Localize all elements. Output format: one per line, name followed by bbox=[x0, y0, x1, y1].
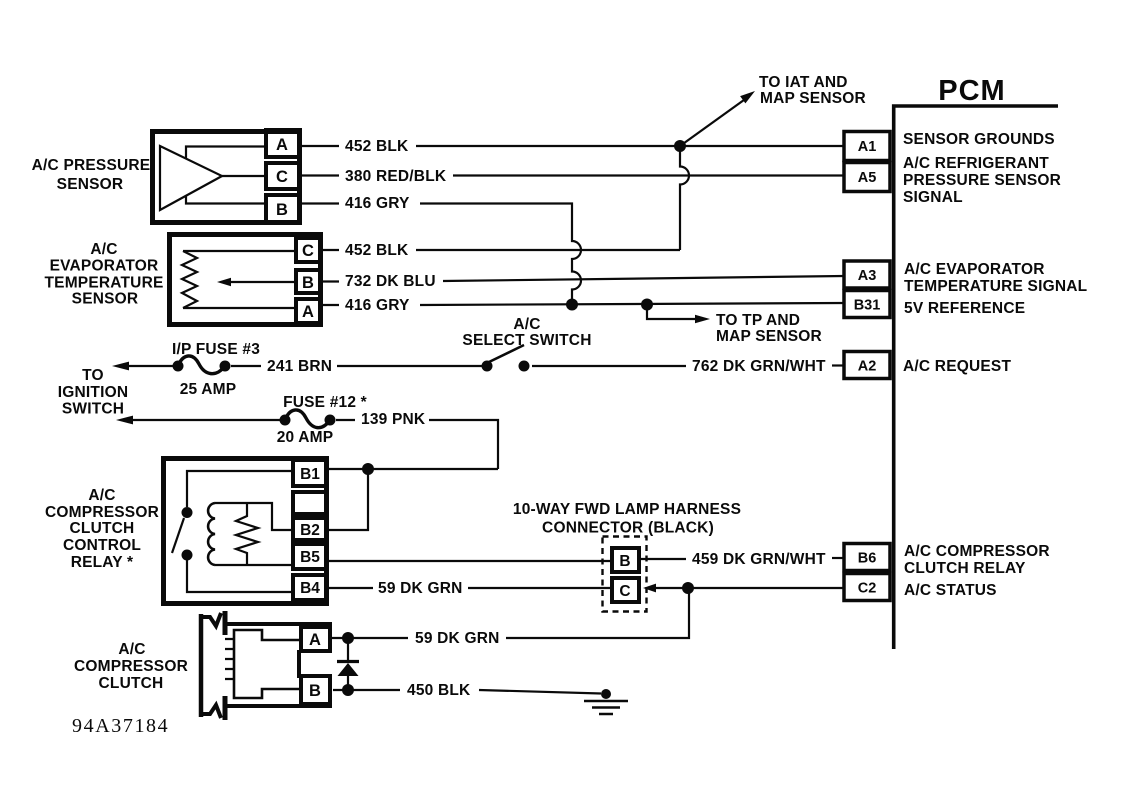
relay empty pin box bbox=[293, 492, 327, 514]
relay internal wire B1 to switch bbox=[187, 471, 293, 507]
svg-text:A2: A2 bbox=[858, 359, 877, 375]
wire 380 RED/BLK stub from pressure C bbox=[302, 174, 339, 176]
A/C pressure sensor box bbox=[153, 132, 300, 223]
svg-text:B1: B1 bbox=[300, 466, 320, 483]
compressor clutch bracket left vertical bbox=[199, 614, 204, 717]
10-way pin C bbox=[612, 578, 639, 602]
wire 459 DK GRN/WHT from 10-way B bbox=[641, 558, 686, 560]
arrowhead TO IAT AND MAP SENSOR bbox=[740, 91, 755, 103]
thermistor arrow line bbox=[230, 281, 294, 283]
op-amp triangle inside pressure sensor bbox=[160, 146, 222, 210]
wire 416 GRY to PCM B31 bbox=[420, 303, 844, 305]
svg-text:452 BLK: 452 BLK bbox=[345, 138, 409, 155]
svg-text:IGNITION: IGNITION bbox=[58, 384, 129, 401]
svg-text:A3: A3 bbox=[858, 268, 877, 284]
fuse terminal dots bbox=[173, 361, 184, 372]
fuse I/P #3 element bbox=[178, 356, 225, 374]
pressure sensor pin B bbox=[266, 195, 300, 223]
svg-text:B5: B5 bbox=[300, 549, 320, 566]
bracket top notch bbox=[199, 613, 221, 626]
internal wire evap pin A bbox=[183, 307, 294, 309]
svg-text:C: C bbox=[276, 168, 288, 186]
svg-text:CLUTCH: CLUTCH bbox=[70, 520, 135, 537]
wire 10-way C to PCM C2 bbox=[648, 587, 844, 589]
svg-text:TO IAT AND: TO IAT AND bbox=[759, 74, 848, 91]
svg-text:241 BRN: 241 BRN bbox=[267, 358, 332, 375]
svg-text:C: C bbox=[302, 242, 314, 260]
svg-text:416 GRY: 416 GRY bbox=[345, 297, 410, 314]
svg-text:SIGNAL: SIGNAL bbox=[903, 189, 963, 206]
pressure sensor pin A bbox=[266, 130, 300, 157]
svg-text:A/C: A/C bbox=[513, 316, 540, 333]
diode D anode/cathode leads bbox=[347, 638, 349, 690]
svg-text:SENSOR GROUNDS: SENSOR GROUNDS bbox=[903, 131, 1055, 148]
wire 450 BLK stub bbox=[333, 689, 400, 691]
svg-text:A1: A1 bbox=[858, 139, 877, 155]
svg-text:94A37184: 94A37184 bbox=[72, 715, 169, 737]
internal wire pin B bbox=[186, 196, 264, 204]
svg-text:TO: TO bbox=[82, 367, 104, 384]
svg-text:B4: B4 bbox=[300, 580, 320, 597]
wire 452 BLK evap to junction bbox=[416, 249, 680, 251]
arrowhead into 10-way C bbox=[643, 584, 656, 593]
bracket bottom notch bbox=[199, 705, 221, 718]
svg-text:A: A bbox=[309, 631, 321, 649]
relay pin B5 bbox=[293, 544, 327, 569]
arrowhead TO TP AND MAP SENSOR bbox=[695, 315, 710, 324]
wire dash before 241 BRN bbox=[231, 365, 261, 367]
clutch pin B bbox=[301, 676, 330, 704]
wire vertical branch with hop over 380 RED/BLK bbox=[680, 146, 689, 250]
svg-text:5V REFERENCE: 5V REFERENCE bbox=[904, 300, 1025, 317]
wire 59 DK GRN to C2 branch corner bbox=[506, 588, 689, 638]
relay pin B2 bbox=[293, 518, 327, 540]
svg-text:A/C PRESSURE: A/C PRESSURE bbox=[32, 157, 151, 174]
PCM pin B6 bbox=[844, 544, 890, 571]
relay internal wire switch to B4 bbox=[187, 560, 293, 592]
wire 732 DK BLU to PCM A3 bbox=[443, 276, 844, 281]
wire 380 RED/BLK to PCM A5 bbox=[453, 174, 844, 176]
svg-text:A/C: A/C bbox=[90, 241, 117, 258]
ground symbol bbox=[584, 701, 628, 714]
10-way pin B bbox=[612, 548, 639, 572]
wire 450 BLK to ground bbox=[479, 690, 601, 694]
svg-text:PCM: PCM bbox=[938, 75, 1005, 107]
svg-text:20 AMP: 20 AMP bbox=[277, 429, 334, 446]
pressure sensor pin C bbox=[266, 163, 300, 189]
svg-text:A/C: A/C bbox=[88, 487, 115, 504]
thermistor zigzag bbox=[182, 251, 197, 308]
svg-text:A/C REFRIGERANT: A/C REFRIGERANT bbox=[903, 155, 1049, 172]
relay internal coil bottom wire to B5 bbox=[215, 564, 293, 566]
svg-text:TO TP AND: TO TP AND bbox=[716, 312, 800, 329]
PCM pin A3 bbox=[844, 261, 890, 288]
node junction on 452 BLK bbox=[674, 140, 686, 152]
node junction B1 jumper bbox=[362, 463, 374, 475]
relay pin B4 bbox=[293, 575, 327, 600]
wire 416 GRY stub from evap A bbox=[322, 304, 339, 306]
PCM pin A2 bbox=[844, 352, 890, 379]
svg-text:416 GRY: 416 GRY bbox=[345, 195, 410, 212]
svg-text:10-WAY FWD LAMP HARNESS: 10-WAY FWD LAMP HARNESS bbox=[513, 501, 741, 518]
svg-text:139 PNK: 139 PNK bbox=[361, 411, 426, 428]
wire relay B4 stub bbox=[329, 587, 373, 589]
arrowhead to ignition switch (241 BRN row) bbox=[112, 362, 129, 371]
wire to fuse #12 bbox=[130, 419, 285, 421]
svg-text:MAP SENSOR: MAP SENSOR bbox=[760, 90, 866, 107]
ground node dot bbox=[601, 689, 611, 699]
svg-text:B: B bbox=[276, 201, 288, 219]
PCM outline bbox=[894, 106, 1058, 649]
svg-text:B6: B6 bbox=[858, 551, 877, 567]
A/C evaporator temperature sensor box bbox=[170, 235, 321, 325]
relay pin B1 bbox=[293, 460, 327, 486]
svg-text:TEMPERATURE SIGNAL: TEMPERATURE SIGNAL bbox=[904, 278, 1087, 295]
wire to I/P fuse bbox=[126, 365, 178, 367]
relay internal coil top wire to B2 bbox=[215, 503, 293, 530]
svg-text:B2: B2 bbox=[300, 522, 320, 539]
clutch pin column connector bbox=[297, 650, 301, 678]
bracket top stub bbox=[223, 611, 228, 635]
wire 452 BLK stub from evap C bbox=[322, 249, 339, 251]
svg-text:RELAY *: RELAY * bbox=[71, 554, 134, 571]
svg-text:A/C REQUEST: A/C REQUEST bbox=[903, 358, 1011, 375]
svg-text:732 DK BLU: 732 DK BLU bbox=[345, 273, 436, 290]
PCM pin B31 bbox=[844, 291, 890, 318]
clutch body top line bbox=[224, 622, 332, 626]
wire 762 DK GRN/WHT bbox=[532, 365, 686, 367]
wire 732 DK BLU stub from evap B bbox=[322, 280, 339, 282]
wire jumper to B2 bbox=[329, 469, 368, 530]
relay switch upper contact bbox=[182, 507, 193, 518]
svg-text:C2: C2 bbox=[858, 581, 877, 597]
svg-text:B: B bbox=[619, 553, 630, 570]
svg-text:SENSOR: SENSOR bbox=[72, 291, 139, 308]
wire branch to IAT arrow bbox=[680, 99, 746, 147]
svg-text:25 AMP: 25 AMP bbox=[180, 381, 237, 398]
svg-text:59 DK GRN: 59 DK GRN bbox=[415, 630, 499, 647]
svg-text:SELECT SWITCH: SELECT SWITCH bbox=[462, 332, 591, 349]
node junction branch to TP/MAP bbox=[641, 299, 653, 311]
clutch pin A bbox=[301, 627, 330, 651]
svg-text:C: C bbox=[619, 583, 630, 600]
arrowhead to ignition switch (139 PNK row) bbox=[116, 416, 133, 425]
svg-text:COMPRESSOR: COMPRESSOR bbox=[45, 504, 159, 521]
svg-text:SENSOR: SENSOR bbox=[57, 176, 124, 193]
svg-text:TEMPERATURE: TEMPERATURE bbox=[44, 275, 163, 292]
clutch coil teeth bbox=[225, 639, 234, 679]
svg-text:59 DK GRN: 59 DK GRN bbox=[378, 580, 462, 597]
diode cathode bar bbox=[337, 660, 359, 663]
svg-text:A/C: A/C bbox=[118, 641, 145, 658]
evap pin C bbox=[296, 238, 321, 262]
svg-text:A/C STATUS: A/C STATUS bbox=[904, 582, 997, 599]
svg-text:COMPRESSOR: COMPRESSOR bbox=[74, 658, 188, 675]
A/C select switch contacts bbox=[482, 361, 493, 372]
select switch lever bbox=[489, 345, 524, 362]
svg-text:B: B bbox=[302, 274, 314, 292]
A/C compressor clutch control relay box bbox=[164, 459, 327, 604]
PCM pin C2 bbox=[844, 574, 890, 601]
wire 452 BLK stub from pressure A bbox=[302, 145, 339, 147]
wire 59 DK GRN from clutch A bbox=[332, 637, 408, 639]
svg-text:762 DK GRN/WHT: 762 DK GRN/WHT bbox=[692, 358, 826, 375]
node junction on C2 wire bbox=[682, 582, 694, 594]
node junction 416 GRY at vertical bbox=[566, 299, 578, 311]
wire 241 BRN to select switch bbox=[337, 365, 487, 367]
wire relay B5 to 10-way B bbox=[329, 560, 612, 562]
thermistor arrowhead bbox=[217, 278, 231, 286]
clutch body bottom line bbox=[224, 704, 332, 708]
wire 59 DK GRN to 10-way C bbox=[468, 587, 612, 589]
svg-text:CLUTCH: CLUTCH bbox=[99, 675, 164, 692]
svg-text:A5: A5 bbox=[858, 170, 877, 186]
svg-text:459 DK GRN/WHT: 459 DK GRN/WHT bbox=[692, 551, 826, 568]
internal wire pin C bbox=[222, 175, 264, 177]
fuse #12 terminal dots bbox=[280, 415, 291, 426]
PCM pin A5 bbox=[844, 163, 890, 192]
wire 416 GRY stub from pressure B bbox=[302, 202, 339, 204]
node junction diode top bbox=[342, 632, 354, 644]
svg-text:B31: B31 bbox=[854, 298, 881, 314]
svg-text:380 RED/BLK: 380 RED/BLK bbox=[345, 168, 447, 185]
svg-text:B: B bbox=[309, 682, 321, 700]
svg-text:A/C COMPRESSOR: A/C COMPRESSOR bbox=[904, 543, 1050, 560]
wire 416 GRY down with hops over 452 BLK and 732 DK BLU bbox=[420, 204, 581, 305]
internal wire pin A bbox=[186, 147, 264, 159]
wire relay B1 external bbox=[329, 468, 498, 470]
fuse #12 element bbox=[285, 410, 330, 428]
svg-text:A/C EVAPORATOR: A/C EVAPORATOR bbox=[904, 261, 1045, 278]
svg-text:MAP SENSOR: MAP SENSOR bbox=[716, 328, 822, 345]
PCM pin A1 bbox=[844, 132, 890, 161]
evap pin A bbox=[296, 299, 321, 323]
wire dash to A2 bbox=[832, 364, 844, 366]
node junction diode bottom bbox=[342, 684, 354, 696]
svg-text:CONNECTOR (BLACK): CONNECTOR (BLACK) bbox=[542, 520, 714, 537]
evap pin B bbox=[296, 270, 321, 293]
svg-text:CONTROL: CONTROL bbox=[63, 537, 141, 554]
diode triangle bbox=[338, 663, 359, 676]
svg-text:SWITCH: SWITCH bbox=[62, 401, 124, 418]
internal wire evap pin C bbox=[183, 250, 294, 252]
wire branch to TP and MAP sensor bbox=[647, 305, 697, 320]
wire dash before 139 PNK bbox=[336, 419, 355, 421]
svg-text:EVAPORATOR: EVAPORATOR bbox=[50, 258, 159, 275]
relay coil resistor zigzag bbox=[236, 503, 258, 565]
relay coil arcs bbox=[208, 503, 215, 565]
svg-text:452 BLK: 452 BLK bbox=[345, 242, 409, 259]
wire dash to B6 bbox=[832, 557, 844, 559]
svg-text:A: A bbox=[302, 303, 314, 321]
svg-text:CLUTCH RELAY: CLUTCH RELAY bbox=[904, 560, 1026, 577]
svg-text:PRESSURE SENSOR: PRESSURE SENSOR bbox=[903, 172, 1061, 189]
wire 452 BLK to PCM A1 bbox=[416, 145, 844, 147]
wire 139 PNK to relay B1 bbox=[429, 420, 498, 469]
relay switch lower contact bbox=[182, 550, 193, 561]
svg-text:450 BLK: 450 BLK bbox=[407, 682, 471, 699]
relay switch lever bbox=[172, 518, 184, 553]
10-way connector dashed outline bbox=[603, 537, 647, 612]
clutch coil outline bbox=[234, 630, 299, 698]
bracket bottom stub bbox=[223, 696, 228, 720]
svg-text:A: A bbox=[276, 136, 288, 154]
